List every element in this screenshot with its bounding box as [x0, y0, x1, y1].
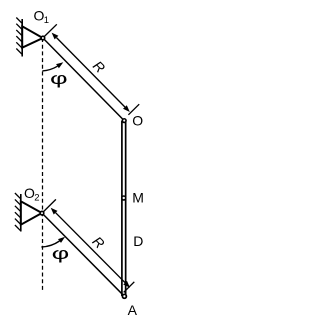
svg-text:1: 1: [44, 15, 49, 26]
svg-text:O: O: [132, 113, 143, 129]
svg-text:D: D: [133, 233, 143, 249]
svg-text:A: A: [128, 302, 138, 318]
svg-text:φ: φ: [50, 68, 68, 87]
svg-text:2: 2: [34, 192, 39, 203]
svg-text:φ: φ: [52, 243, 70, 262]
svg-text:M: M: [132, 190, 144, 206]
